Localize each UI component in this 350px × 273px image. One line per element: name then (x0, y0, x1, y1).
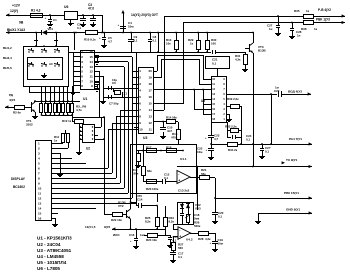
resistor R21 (190, 177, 199, 179)
svg-text:15: 15 (148, 102, 152, 106)
wire inner top line (137, 150, 183, 152)
button S5 (41, 65, 42, 66)
capacitor C28 (291, 22, 293, 24)
svg-text:10м: 10м (128, 24, 134, 28)
node C22 down junction (270, 143, 272, 145)
node x253 junction (252, 143, 254, 145)
svg-text:10м: 10м (197, 150, 202, 154)
wire U1 left pin bus (73, 52, 75, 90)
wire U2 top (72, 117, 104, 119)
wire keypad feeds (36, 32, 38, 46)
svg-text:0,1: 0,1 (153, 38, 157, 42)
resistor R24 (148, 234, 158, 238)
capacitor C19 (215, 241, 217, 242)
svg-text:4,7: 4,7 (108, 39, 112, 43)
wire disp r14 (51, 208, 96, 210)
capacitor C17 (173, 250, 175, 252)
resistor R20v (143, 144, 145, 166)
resistor R23 (165, 206, 167, 217)
svg-text:R33 2,2к: R33 2,2к (225, 125, 237, 129)
resistor R31 (245, 52, 247, 54)
capacitor C18 (180, 213, 184, 215)
svg-text:16: 16 (89, 50, 93, 54)
wire U2 pin left 4 (79, 139, 82, 141)
wire U5 left rail (203, 90, 205, 114)
svg-text:В13В: В13В (118, 200, 127, 204)
svg-text:R36: R36 (301, 27, 307, 31)
resistor R7 (58, 104, 61, 113)
svg-text:0,1: 0,1 (218, 214, 222, 218)
resistor R27 (173, 236, 175, 242)
wire bus v x132 (132, 57, 134, 198)
wire bus v x128 (128, 62, 130, 193)
svg-text:R28: R28 (198, 237, 204, 241)
wire RX drop (164, 16, 166, 110)
svg-text:1к: 1к (306, 9, 310, 13)
svg-text:11: 11 (38, 191, 42, 195)
svg-text:U3 - AT89C4051: U3 - AT89C4051 (37, 248, 72, 253)
svg-text:19: 19 (148, 76, 152, 80)
svg-text:14(У1,5: 14(У1,5 (85, 225, 96, 229)
svg-text:U2 - 24C04: U2 - 24C04 (37, 242, 61, 247)
capacitor C11 inline (134, 127, 138, 129)
resistor R32 (226, 106, 230, 108)
resistor R4 (45, 104, 48, 113)
resistor R2a inline (86, 31, 98, 35)
wire U3 pin12 out (153, 121, 166, 123)
keypad box (24, 47, 69, 87)
wire C22 branch (270, 93, 272, 95)
svg-text:12: 12 (148, 121, 152, 125)
wire x197 lower (197, 166, 199, 210)
dac U5 box (212, 77, 227, 123)
wire bus v x124 (124, 67, 126, 188)
eeprom U2 box (83, 125, 95, 143)
wire bus to R22 (104, 214, 112, 216)
wire U1 pin right 4 (94, 66, 124, 68)
wire disp r5 (51, 163, 86, 165)
wire U1 pin right 8 (94, 86, 97, 88)
wire bus v x116 (116, 116, 138, 118)
wire U3 p18 route (153, 89, 211, 91)
wire keypad signal bus (68, 52, 211, 54)
wire U3 left stub 6 (132, 103, 138, 105)
diode VD1 (42, 30, 47, 35)
svg-text:12(У): 12(У) (10, 9, 18, 13)
wire U1 pin right 2 (94, 56, 132, 58)
wire U1 pin right 3 (94, 61, 128, 63)
svg-text:1к: 1к (314, 27, 318, 31)
svg-text:8,2к: 8,2к (145, 219, 151, 223)
resistor R9 (67, 104, 70, 113)
capacitor C25 (211, 144, 213, 148)
button S3 (54, 51, 55, 52)
wire VT3 collector (253, 32, 255, 43)
wire disp r16 ground (51, 218, 55, 220)
wire +5V rail (77, 15, 102, 17)
resistor R28 (199, 232, 209, 236)
resistor R19 (138, 150, 140, 153)
svg-text:R1 4,3: R1 4,3 (31, 9, 41, 13)
wire +12V rail (6, 15, 64, 17)
op-amp U4.2 (178, 227, 191, 240)
wire U3 left stub 1 (132, 71, 138, 73)
svg-text:470к: 470к (171, 135, 178, 139)
svg-text:РВ6 15(У1: РВ6 15(У1 (284, 191, 299, 195)
button S6 (54, 65, 55, 66)
svg-text:560: 560 (178, 246, 183, 250)
capacitor U1 bypass b (95, 82, 99, 84)
wire PB6 out (215, 198, 312, 200)
ground keypad (44, 73, 46, 75)
svg-text:11: 11 (90, 74, 94, 78)
resistor R25 (156, 205, 158, 207)
svg-text:U1: U1 (83, 97, 87, 101)
svg-text:R22 10к: R22 10к (111, 218, 122, 222)
wire x215 vertical (215, 178, 217, 212)
wire GND out (258, 213, 312, 215)
node keypad feed bars (34, 40, 38, 42)
svg-text:ВН3,4: ВН3,4 (3, 56, 12, 60)
svg-text:16: 16 (38, 216, 42, 220)
svg-text:12: 12 (38, 196, 42, 200)
node C2 junction (82, 14, 84, 16)
diode VD3 (186, 204, 190, 208)
svg-text:8,2к: 8,2к (169, 219, 175, 223)
wire U3 left stub 3 (132, 84, 138, 86)
wire resistor row bottom (42, 115, 72, 117)
resistor R26 pot (187, 215, 190, 223)
wire U1 pin right 6 (94, 76, 103, 78)
wire VT3 emitter (253, 53, 255, 166)
wire U1 right bus x99 (99, 71, 101, 117)
svg-text:R32 2,2к: R32 2,2к (227, 97, 239, 101)
wire bus v x136 (136, 52, 138, 203)
power net +5V arrow (121, 10, 124, 13)
capacitor C2 (83, 15, 85, 18)
capacitor C22 (278, 91, 280, 97)
ground U5 (226, 114, 229, 116)
wire keypad column 4 (54, 86, 56, 103)
resistor R2 (5, 107, 14, 109)
ground VT1 emitter (35, 112, 37, 114)
resistor R13 (175, 32, 177, 34)
transistor VT3 (245, 48, 249, 50)
svg-text:А0: А0 (49, 62, 53, 66)
mcu U3 box (139, 68, 154, 134)
svg-text:R10 1к: R10 1к (62, 119, 72, 123)
wire bus v x120 (120, 110, 138, 112)
svg-text:+: + (179, 235, 181, 239)
svg-text:C16: C16 (129, 233, 135, 237)
capacitor C8 (149, 32, 151, 34)
svg-text:0,1: 0,1 (246, 137, 250, 141)
wire U1 pin left 6 (73, 76, 80, 78)
filter C21 box (206, 57, 230, 69)
svg-text:R35: R35 (294, 9, 300, 13)
resistor R6 (54, 104, 57, 113)
wire U4.2 inputs (173, 229, 178, 231)
svg-text:C1: C1 (53, 18, 57, 22)
svg-text:10p: 10p (112, 78, 117, 82)
svg-text:1м: 1м (275, 86, 279, 90)
feedback network box (178, 203, 194, 225)
svg-text:20: 20 (148, 69, 152, 73)
wire VT2 emitter (130, 219, 132, 229)
analog block box (131, 145, 197, 194)
resistor R33 (227, 130, 230, 132)
wire bus v x112 (112, 123, 138, 125)
capacitor C9 (130, 32, 132, 34)
svg-text:4(У3: 4(У3 (9, 98, 16, 102)
svg-text:17: 17 (148, 89, 152, 93)
wire U2 pin left 3 (79, 135, 82, 137)
resistor R16 (175, 121, 178, 123)
wire U2 pin left 2 (79, 131, 82, 133)
svg-text:ВЫХ1 У1А3: ВЫХ1 У1А3 (7, 28, 25, 32)
svg-text:10к: 10к (166, 41, 171, 45)
svg-text:+12V: +12V (12, 4, 21, 8)
svg-text:U4.2: U4.2 (186, 238, 193, 242)
wire disp r2 (51, 148, 68, 150)
svg-text:0,1: 0,1 (77, 26, 81, 30)
wire U2 pin r4 (94, 139, 104, 141)
wire U1 pin left 3 (73, 61, 80, 63)
svg-text:14: 14 (38, 206, 42, 210)
capacitor C16 (135, 228, 137, 230)
svg-text:47,0: 47,0 (88, 7, 94, 11)
svg-text:+: + (99, 36, 101, 40)
capacitor C23 inline (208, 135, 214, 137)
svg-text:ИОС: ИОС (113, 233, 120, 237)
capacitor C10 (163, 122, 165, 127)
svg-text:DISPLAY: DISPLAY (11, 177, 26, 181)
svg-text:0,1: 0,1 (164, 176, 168, 180)
svg-text:1н: 1н (297, 33, 301, 37)
node C3 junction (92, 14, 94, 16)
wire disp r3 ground (51, 153, 60, 155)
op-amp U4.1 (177, 171, 190, 184)
svg-text:9В: 9В (19, 21, 24, 25)
wire bus v x108 (108, 129, 138, 131)
svg-text:16: 16 (148, 95, 152, 99)
wire keypad column 5 (59, 86, 61, 103)
svg-text:R20: R20 (146, 187, 152, 191)
capacitor C24 (227, 137, 231, 139)
capacitor C1 (50, 15, 52, 19)
svg-text:4,7: 4,7 (214, 137, 218, 141)
capacitor C7 (108, 95, 110, 99)
svg-text:U6 - L7805: U6 - L7805 (37, 266, 60, 271)
wire keypad column 6 (63, 86, 65, 103)
svg-text:U4 - LM4558: U4 - LM4558 (37, 254, 64, 259)
wire resistor row top (34, 101, 80, 103)
button S1 (28, 51, 29, 52)
svg-text:14(У1) 20(У3) ОУТ: 14(У1) 20(У3) ОУТ (131, 13, 158, 17)
wire PA4 out (211, 144, 227, 146)
svg-text:U6: U6 (64, 5, 68, 9)
svg-text:18: 18 (148, 82, 152, 86)
svg-text:R34 2к: R34 2к (228, 148, 238, 152)
svg-text:14: 14 (148, 108, 152, 112)
node C1 junction (49, 14, 51, 16)
wire R11 R12 top (63, 133, 68, 135)
wire U1 pin right 1 (94, 52, 136, 54)
connector display box (36, 141, 52, 221)
wire U1 pin left 4 (73, 66, 80, 68)
svg-text:R10 9,1к: R10 9,1к (84, 38, 96, 42)
svg-text:0,1: 0,1 (212, 62, 217, 66)
keypad inner loop (28, 58, 63, 80)
wire U5 to C25 node (211, 122, 213, 135)
wire keypad column 8 (72, 86, 74, 103)
svg-text:0,1: 0,1 (134, 38, 138, 42)
ground U1 (73, 90, 75, 92)
capacitor series C-base (212, 50, 214, 54)
svg-text:R2 6к: R2 6к (13, 111, 21, 115)
svg-text:Сб: Сб (29, 62, 33, 66)
svg-text:10: 10 (139, 128, 143, 132)
resistor R20 (147, 180, 157, 184)
wire 9V rail (6, 32, 42, 34)
capacitor C6 (108, 86, 110, 90)
resistor R10 (71, 104, 74, 113)
wire U1 pin right 7 (94, 81, 99, 83)
svg-text:VD1: VD1 (48, 27, 54, 31)
svg-text:U3: U3 (143, 136, 147, 140)
svg-text:14: 14 (89, 60, 93, 64)
node rail junctions (101, 32, 103, 34)
svg-text:ТХ 9(У1: ТХ 9(У1 (286, 158, 297, 162)
wire U2 pin r3 (94, 135, 98, 137)
wire RX out (164, 16, 278, 18)
svg-text:В13В: В13В (258, 49, 267, 53)
wire x194 drop (194, 90, 196, 109)
resistor R5 (49, 104, 52, 113)
wire bus v x104 (104, 117, 106, 214)
button S4 (28, 65, 29, 66)
svg-text:ВС1602: ВС1602 (13, 185, 25, 189)
wire TX out (177, 166, 312, 168)
wire R24 link (165, 229, 167, 235)
wire U1 pin left 1 (73, 52, 80, 54)
wire U1 pin right 5 (94, 71, 99, 73)
svg-text:GND 8(У1: GND 8(У1 (286, 208, 300, 212)
svg-text:10: 10 (38, 186, 42, 190)
resistor R8 (62, 104, 65, 113)
wire keypad column 1 (41, 86, 43, 103)
capacitor C20 (212, 212, 218, 214)
resistor R36 (304, 21, 314, 25)
wire disp r1 (51, 143, 63, 145)
wire +5V corner (102, 15, 104, 33)
wire U5 out row4 (226, 94, 277, 96)
svg-text:C14: C14 (137, 198, 143, 202)
wire keypad column 7 (67, 86, 69, 103)
wire U4.1 feedback (177, 166, 196, 168)
svg-text:82к: 82к (147, 169, 152, 173)
wire U2 left bus (79, 124, 81, 150)
capacitor C27 (277, 15, 279, 17)
svg-text:13: 13 (89, 65, 93, 69)
svg-text:U2: U2 (86, 147, 90, 151)
capacitor U1 bypass a (95, 55, 99, 57)
svg-text:10м: 10м (218, 241, 223, 245)
svg-text:470: 470 (137, 194, 142, 198)
wire keypad column 3 (50, 86, 52, 103)
svg-text:0,1: 0,1 (178, 255, 182, 259)
wire C21 to U5 (217, 68, 219, 76)
wire U1 pin left 2 (73, 56, 80, 58)
svg-text:4,7к: 4,7к (76, 108, 82, 112)
svg-text:ВН1,2: ВН1,2 (3, 46, 12, 50)
svg-text:1н: 1н (269, 27, 273, 31)
svg-text:15: 15 (89, 55, 93, 59)
wire U4.2 output (190, 233, 198, 235)
svg-text:15: 15 (38, 211, 42, 215)
svg-text:500к: 500к (194, 224, 201, 228)
svg-text:+: + (118, 23, 120, 27)
wire U3 p20 route (153, 71, 157, 73)
diode VD2 (180, 204, 184, 208)
button S2 (41, 51, 42, 52)
svg-text:U5 - 1015ПЛ4: U5 - 1015ПЛ4 (37, 260, 67, 265)
wire x157 box link (157, 193, 159, 202)
svg-text:Р-В 4(У2: Р-В 4(У2 (318, 8, 331, 12)
svg-text:R24 10к: R24 10к (146, 238, 157, 242)
wire C24 to PA4 (241, 137, 243, 144)
capacitor C2x (261, 143, 263, 145)
wire disp r15 (51, 213, 58, 215)
wire U1 pin left 7 (73, 81, 80, 83)
ground crystal (103, 99, 105, 101)
resistor R22 (113, 213, 123, 217)
wire U1 pin left 8 (73, 85, 80, 87)
op IC U1 box (81, 51, 95, 90)
ground U2 (79, 150, 81, 152)
wire VT1 collector (35, 101, 37, 102)
wire U3 p19 route (153, 77, 161, 79)
svg-text:+: + (178, 179, 180, 183)
wire disp r4 (51, 158, 72, 160)
svg-text:VD3: VD3 (195, 207, 201, 211)
ground U6 (70, 19, 72, 21)
svg-text:ВОД 4(У3: ВОД 4(У3 (288, 90, 302, 94)
transistor VT2 (122, 214, 126, 216)
wire U3 left stub 2 (132, 77, 138, 79)
capacitor C12 (162, 179, 164, 184)
svg-text:13: 13 (148, 115, 152, 119)
svg-text:C7 50p: C7 50p (109, 102, 119, 106)
svg-text:100к: 100к (152, 187, 159, 191)
svg-text:VT2: VT2 (118, 204, 124, 208)
capacitor C5 (103, 32, 105, 34)
node keypad top dots (35, 45, 37, 47)
svg-text:РА4 7(У1: РА4 7(У1 (289, 137, 302, 141)
svg-text:4,3к: 4,3к (235, 57, 241, 61)
svg-text:ВН5,6: ВН5,6 (3, 66, 12, 70)
node inner dots (142, 150, 144, 152)
wire R28 node (215, 233, 217, 241)
resistor R34 (228, 143, 238, 147)
resistor R29 (197, 32, 199, 34)
resistor R11 (62, 134, 65, 143)
wire VT2 collector (130, 193, 132, 209)
svg-text:12: 12 (89, 70, 93, 74)
svg-text:100: 100 (211, 41, 216, 45)
svg-text:U1 - КР1561КП3: U1 - КР1561КП3 (37, 236, 72, 241)
wire crystal node2 (103, 97, 138, 99)
